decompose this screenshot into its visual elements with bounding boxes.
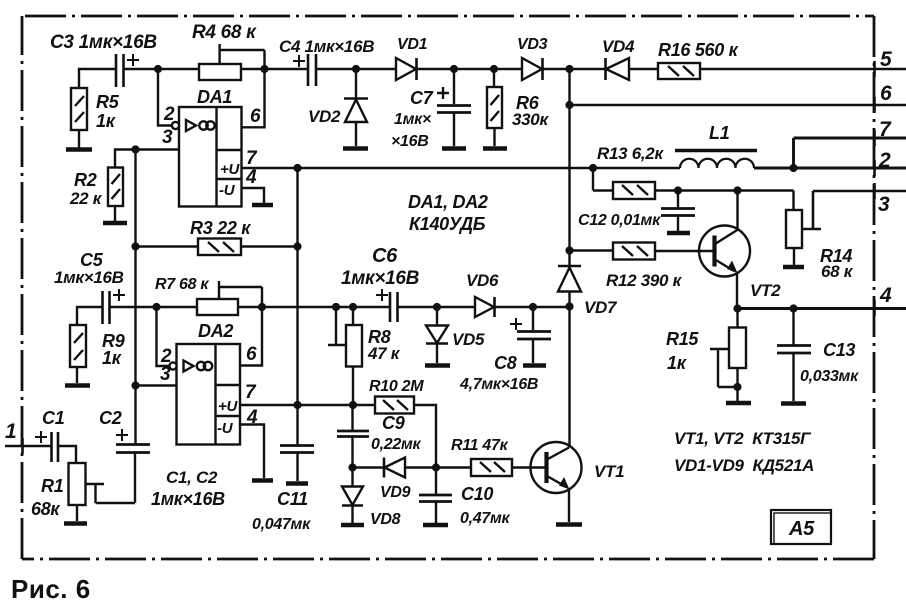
resistor R6	[483, 69, 507, 149]
node R13 top	[589, 164, 597, 172]
resistor R2	[108, 168, 123, 207]
inductor L1	[680, 159, 754, 168]
resistor R5	[71, 88, 87, 130]
svg-text:R3 22 к: R3 22 к	[190, 218, 251, 238]
diode VD8	[341, 468, 364, 526]
svg-text:3: 3	[878, 193, 890, 216]
svg-text:C7: C7	[410, 88, 434, 108]
svg-text:VT2: VT2	[750, 281, 781, 300]
wire C9 junction	[351, 405, 353, 430]
svg-text:R16 560 к: R16 560 к	[658, 40, 739, 60]
ground DA2 pin4	[252, 478, 273, 483]
capacitor C1	[35, 431, 58, 462]
diode VD1	[396, 58, 417, 80]
svg-text:DA1, DA2: DA1, DA2	[408, 192, 488, 212]
node A5	[490, 65, 498, 73]
svg-text:0,047мк: 0,047мк	[252, 516, 311, 533]
wire terminal 6 bus	[570, 104, 906, 106]
resistor R13	[593, 168, 794, 199]
capacitor C10	[419, 468, 452, 526]
node A6 (main rail top)	[565, 65, 573, 73]
wire R4 to C4	[241, 68, 308, 70]
svg-text:R5: R5	[96, 92, 120, 112]
svg-text:6: 6	[246, 344, 257, 365]
wire rail down to VT1 collector	[568, 307, 570, 447]
node C9 top	[349, 401, 357, 409]
ground under VT1	[556, 522, 582, 527]
svg-text:DA1: DA1	[197, 87, 232, 107]
svg-text:R4 68 к: R4 68 к	[192, 22, 257, 43]
svg-text:C4 1мк×16В: C4 1мк×16В	[279, 37, 374, 56]
svg-text:R7 68 к: R7 68 к	[155, 276, 209, 293]
svg-text:C2: C2	[99, 408, 122, 428]
wire terminal 7	[794, 138, 906, 168]
wire DA2 pin3	[136, 384, 177, 386]
resistor R15 (trimmer)	[710, 309, 746, 402]
svg-text:VT1, VT2 КТ315Г: VT1, VT2 КТ315Г	[674, 429, 812, 448]
svg-text:1к: 1к	[102, 348, 122, 368]
wire node B1 to R2	[115, 150, 136, 168]
resistor R8 (trimmer)	[328, 307, 362, 405]
wire DA2 pin6 to node R7out	[240, 307, 262, 366]
ground DA1 pin4	[252, 203, 273, 208]
terminal 7 tick	[873, 130, 876, 146]
ground under R1	[64, 505, 87, 524]
resistor R10	[375, 397, 414, 414]
capacitor C2	[116, 429, 150, 503]
node A4	[450, 65, 458, 73]
svg-text:7: 7	[879, 118, 892, 141]
resistor R9	[70, 325, 86, 367]
wire DA1 pin3	[136, 148, 180, 150]
vertical rail B2 down to C11	[296, 168, 298, 445]
svg-text:R10 2М: R10 2М	[369, 378, 424, 395]
svg-text:4: 4	[245, 167, 257, 188]
terminal 3 tick	[873, 183, 876, 199]
svg-text:1к: 1к	[667, 353, 687, 373]
main rail node A6 down through VD7	[568, 69, 570, 266]
node pin3 DA2	[131, 381, 139, 389]
svg-text:6: 6	[880, 82, 892, 105]
svg-text:VT1: VT1	[594, 462, 624, 481]
svg-text:1мк×16В: 1мк×16В	[341, 268, 420, 289]
wire DA1 pin6 to node A2	[242, 69, 265, 127]
svg-text:1: 1	[5, 420, 16, 443]
diode VD3	[522, 58, 543, 80]
svg-text:4,7мк×16В: 4,7мк×16В	[459, 376, 538, 393]
node VD5	[433, 303, 441, 311]
svg-text:C12 0,01мк: C12 0,01мк	[578, 212, 661, 229]
svg-text:0,47мк: 0,47мк	[460, 510, 510, 527]
op-amp DA2	[169, 344, 240, 445]
wire R11 to VT1 base	[512, 466, 546, 468]
node rail-T6	[565, 101, 573, 109]
capacitor C4	[293, 54, 316, 86]
wire R10 to VD9 line	[414, 405, 436, 468]
capacitor C3	[116, 54, 139, 87]
svg-text:-U: -U	[219, 182, 236, 199]
svg-text:VD3: VD3	[517, 36, 548, 53]
svg-text:C10: C10	[461, 484, 493, 504]
capacitor C11	[280, 446, 314, 484]
wire R7 to C6	[238, 306, 389, 308]
svg-text:Рис. 6: Рис. 6	[11, 574, 91, 604]
resistor R1 (trimmer)	[69, 463, 136, 505]
terminal 4 tick	[873, 300, 876, 316]
node B4	[293, 242, 301, 250]
svg-text:VD8: VD8	[370, 511, 401, 528]
node C12 top	[674, 186, 682, 194]
node B2	[293, 164, 301, 172]
node C10 top	[432, 463, 440, 471]
capacitor C9	[337, 431, 369, 468]
svg-text:68к: 68к	[31, 499, 60, 519]
ground under R9	[65, 367, 90, 386]
node C5R7	[152, 303, 160, 311]
svg-text:0,22мк: 0,22мк	[371, 436, 421, 453]
resistor R4 (trimmer)	[199, 44, 265, 80]
svg-text:R11 47к: R11 47к	[451, 437, 509, 454]
node C8	[529, 303, 537, 311]
capacitor C13	[777, 309, 811, 404]
node VD9 left	[348, 463, 356, 471]
svg-text:VD5: VD5	[452, 330, 485, 349]
wire VD4 to R16	[629, 68, 658, 70]
svg-text:C11: C11	[277, 489, 308, 509]
wire C1 to R1	[58, 446, 76, 463]
svg-text:R12 390 к: R12 390 к	[606, 271, 683, 290]
node A1	[154, 65, 162, 73]
svg-text:VD4: VD4	[602, 37, 635, 56]
svg-text:L1: L1	[709, 123, 730, 143]
wire VD1 to VD3	[417, 68, 523, 70]
terminal 2 tick	[873, 160, 876, 176]
svg-text:+U: +U	[220, 161, 240, 178]
svg-text:R2: R2	[74, 170, 97, 190]
svg-text:R15: R15	[666, 329, 699, 349]
svg-text:7: 7	[246, 148, 258, 169]
resistor R16	[658, 63, 700, 79]
resistor R7 (trimmer)	[197, 281, 262, 315]
terminal 1 tick	[21, 438, 24, 454]
transistor VT1	[531, 442, 582, 522]
node A2	[260, 65, 268, 73]
wire terminal 4	[738, 307, 906, 310]
svg-text:C3 1мк×16В: C3 1мк×16В	[50, 32, 157, 53]
resistor R14 (trimmer)	[786, 191, 906, 249]
wire R9 to C5	[77, 307, 102, 325]
svg-text:68 к: 68 к	[821, 262, 854, 281]
wire C5 to R7	[110, 306, 197, 308]
node R8 tap	[332, 303, 340, 311]
node R8 top	[349, 303, 357, 311]
node C13 top	[789, 304, 797, 312]
ground under R5	[66, 130, 92, 150]
transistor VT2	[699, 191, 750, 309]
wire DA2 pin4	[240, 425, 264, 479]
node A3	[352, 65, 360, 73]
svg-text:4: 4	[879, 284, 892, 307]
svg-text:VD1: VD1	[397, 36, 428, 53]
node VT2 collector	[733, 186, 741, 194]
svg-text:2: 2	[878, 149, 891, 172]
svg-text:C9: C9	[382, 413, 405, 433]
wire VD9 line	[353, 466, 385, 468]
diode VD7	[558, 266, 581, 307]
node R12 junction	[565, 246, 573, 254]
svg-text:C1, C2: C1, C2	[166, 468, 218, 487]
resistor R11	[471, 459, 512, 476]
wire VD6 to VD7 node	[495, 306, 570, 308]
node VD7 bottom	[565, 302, 573, 310]
wire VD3 to VD4	[543, 68, 606, 70]
node L1 out	[789, 164, 797, 172]
ground under R14	[783, 248, 804, 267]
svg-text:0,033мк: 0,033мк	[800, 368, 859, 385]
wire DA2 pin7 to R10	[240, 404, 375, 406]
terminal 1 wire	[5, 445, 51, 447]
svg-text:1мк×16В: 1мк×16В	[151, 489, 225, 509]
inductor L1 core	[675, 149, 757, 153]
wire C4 to VD1	[316, 68, 396, 70]
ground under R15	[726, 401, 751, 406]
node B3	[131, 242, 139, 250]
svg-text:6: 6	[250, 106, 261, 127]
svg-text:×16В: ×16В	[391, 133, 429, 150]
capacitor C6	[376, 289, 398, 322]
node R7out	[258, 303, 266, 311]
capacitor C5	[103, 289, 126, 324]
diode VD4	[606, 58, 630, 80]
wire L1 to terminal 2	[754, 167, 906, 170]
terminal 5 tick	[873, 61, 876, 77]
svg-text:47 к: 47 к	[367, 344, 401, 363]
node R15 tap bottom	[733, 383, 741, 391]
diode VD2	[343, 69, 368, 149]
svg-text:C1: C1	[42, 408, 65, 428]
svg-text:R13 6,2к: R13 6,2к	[597, 144, 664, 163]
diode VD9	[384, 458, 471, 478]
wire node C5R7 to DA2 pin2	[157, 307, 170, 366]
wire C3 to R4	[124, 68, 200, 70]
svg-text:VD1-VD9 КД521А: VD1-VD9 КД521А	[674, 456, 814, 475]
resistor R12	[570, 243, 715, 260]
resistor R3	[136, 239, 298, 256]
box A5	[771, 510, 831, 544]
svg-text:1к: 1к	[96, 111, 116, 131]
diode VD5	[425, 307, 450, 366]
svg-text:C8: C8	[494, 353, 517, 373]
svg-text:C6: C6	[372, 245, 398, 267]
svg-text:7: 7	[245, 382, 257, 403]
svg-text:VD7: VD7	[584, 298, 618, 317]
svg-text:VD9: VD9	[380, 484, 411, 501]
svg-text:+U: +U	[218, 398, 238, 415]
wire C6 to VD6	[398, 306, 476, 308]
svg-text:DA2: DA2	[198, 321, 233, 341]
svg-text:C13: C13	[823, 340, 855, 360]
wire DA1 pin7 supply rail to L1	[242, 167, 681, 169]
wire input R5 to C3	[79, 69, 115, 88]
svg-text:-U: -U	[217, 420, 234, 437]
svg-text:5: 5	[880, 48, 892, 71]
capacitor C8	[510, 307, 551, 366]
capacitor C7	[437, 69, 471, 149]
terminal 6 tick	[873, 97, 876, 113]
svg-text:R1: R1	[41, 476, 64, 496]
wire R16 to terminal 5	[700, 68, 906, 70]
op-amp DA1	[172, 107, 242, 207]
ground under R2	[103, 206, 127, 223]
svg-text:4: 4	[246, 407, 258, 428]
vertical rail from B1 to DA2 area	[134, 150, 136, 445]
svg-text:VD2: VD2	[308, 107, 341, 126]
svg-text:2: 2	[163, 104, 175, 125]
node B1	[131, 145, 139, 153]
svg-text:3: 3	[162, 127, 173, 148]
node pin7 DA2	[293, 401, 301, 409]
wire DA1 pin4	[242, 188, 265, 203]
svg-text:1мк×: 1мк×	[394, 111, 431, 128]
svg-text:К140УДБ: К140УДБ	[409, 214, 486, 234]
node VT2 emitter	[733, 304, 741, 312]
svg-text:22 к: 22 к	[69, 189, 103, 208]
capacitor C12	[661, 191, 695, 234]
svg-text:А5: А5	[788, 518, 815, 540]
svg-text:330к: 330к	[512, 110, 549, 129]
svg-text:3: 3	[160, 364, 171, 385]
svg-text:VD6: VD6	[466, 271, 499, 290]
svg-text:C5: C5	[80, 250, 104, 270]
svg-text:1мк×16В: 1мк×16В	[54, 268, 124, 287]
diode VD6	[475, 297, 495, 317]
wire node A1 to DA1 pin2	[158, 69, 172, 126]
